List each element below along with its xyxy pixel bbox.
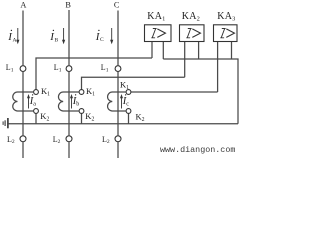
svg-text:KA2: KA2 (182, 11, 200, 22)
label I> inside KA2 (186, 29, 200, 38)
wire K2 C drop (128, 113, 130, 123)
relay KA2 leg right (198, 42, 200, 60)
svg-text:C: C (114, 0, 120, 9)
arrow current IC down (111, 28, 113, 41)
svg-text:KA1: KA1 (147, 11, 165, 22)
CT A secondary winding (13, 92, 34, 111)
wire CT B secondary K1 to relay KA2 (82, 77, 185, 89)
terminal K1 CT B (79, 90, 84, 95)
terminal K1 CT A (34, 90, 39, 95)
relay KA1 leg right (162, 42, 164, 60)
svg-text:L1: L1 (54, 63, 62, 73)
svg-text:a: a (33, 102, 36, 108)
terminal K1 CT C (126, 90, 131, 95)
terminal L1 phase A (20, 66, 26, 72)
svg-text:L2: L2 (7, 135, 15, 145)
svg-text:c: c (126, 102, 129, 108)
label current IB (49, 30, 58, 44)
relay KA3 box (214, 25, 238, 42)
terminal K2 CT B (79, 109, 84, 114)
ground symbol (3, 118, 8, 128)
wire common return to ground (9, 123, 238, 125)
label I> inside KA1 (151, 29, 165, 38)
svg-text:K2: K2 (136, 112, 145, 124)
svg-text:L1: L1 (101, 63, 109, 73)
svg-text:K1: K1 (86, 86, 95, 98)
terminal L1 phase B (66, 66, 72, 72)
label current Ic (122, 94, 130, 107)
terminal L1 phase C (115, 66, 121, 72)
arrow current Ic up (121, 98, 123, 109)
relay KA1 leg left (151, 42, 153, 59)
svg-text:C: C (100, 37, 104, 43)
terminal K2 CT A (34, 109, 39, 114)
terminal L2 phase C (115, 136, 121, 142)
label I> inside KA3 (220, 29, 234, 38)
wire CT A secondary K1 to relay KA1 (36, 58, 152, 90)
relay KA2 box (180, 25, 205, 42)
wire phase A line (22, 11, 24, 159)
svg-text:L2: L2 (53, 135, 61, 145)
svg-text:K2: K2 (40, 111, 49, 123)
arrow current IA down (17, 28, 19, 41)
svg-text:www.diangon.com: www.diangon.com (160, 145, 235, 155)
arrow current IB down (63, 28, 65, 41)
label current Ib (72, 94, 80, 107)
label current IC (95, 30, 104, 44)
svg-text:B: B (55, 37, 59, 43)
terminal L2 phase A (20, 136, 26, 142)
wire common bus right of relays (163, 59, 238, 124)
svg-text:K1: K1 (120, 79, 129, 91)
wire K2 B drop (81, 113, 83, 123)
wire K2 A drop (35, 113, 37, 123)
svg-text:L2: L2 (102, 135, 110, 145)
svg-text:KA3: KA3 (217, 11, 235, 22)
label current IA (7, 30, 16, 44)
terminal L2 phase B (66, 136, 72, 142)
svg-text:B: B (65, 0, 71, 9)
svg-text:K2: K2 (85, 111, 94, 123)
wire CT C secondary K1 to relay KA3 (131, 91, 218, 93)
relay KA1 box (145, 25, 172, 42)
wire phase C line (117, 11, 119, 159)
wire phase B line (68, 10, 70, 158)
svg-text:L1: L1 (6, 63, 14, 73)
arrow current Ib up (71, 98, 73, 109)
relay KA3 leg left (217, 42, 219, 93)
svg-text:K1: K1 (41, 86, 50, 98)
terminal K2 CT C (126, 109, 131, 114)
relay KA2 leg left (184, 42, 186, 78)
CT B secondary winding (58, 92, 79, 111)
CT C secondary winding (108, 92, 127, 111)
svg-text:A: A (20, 0, 26, 9)
svg-text:b: b (76, 102, 79, 108)
relay KA3 leg right (231, 42, 233, 60)
svg-text:A: A (13, 37, 17, 43)
arrow current Ia up (28, 98, 30, 109)
label current Ia (29, 94, 37, 107)
